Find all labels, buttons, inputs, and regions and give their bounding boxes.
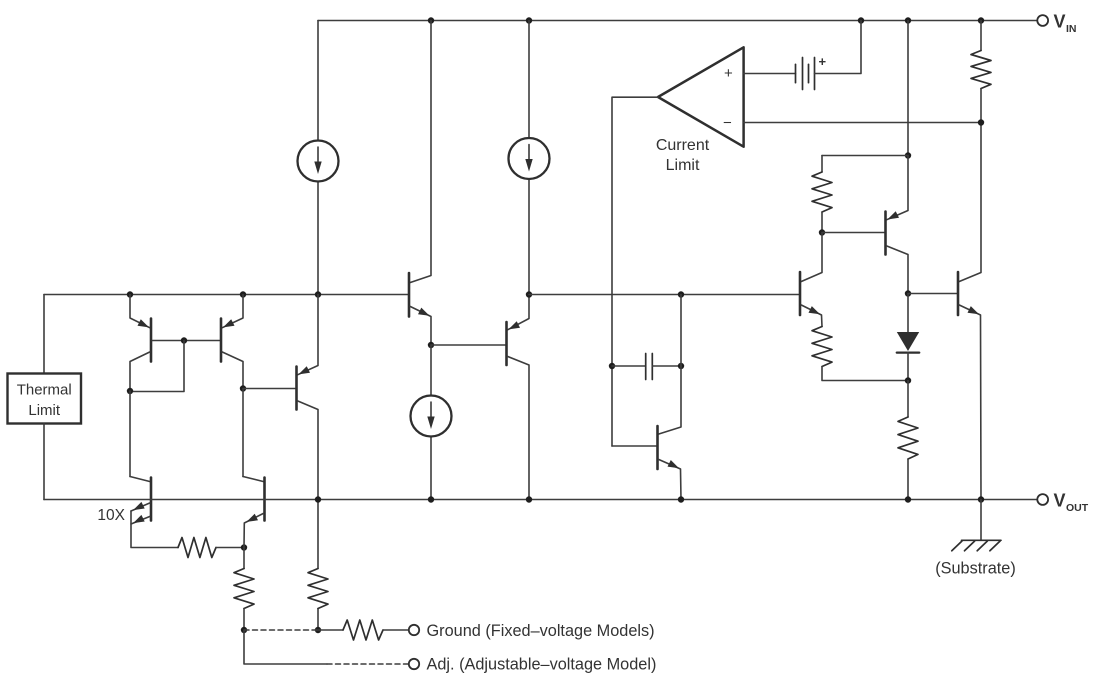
node x908 junction	[905, 152, 911, 158]
wire dashed adj	[327, 663, 409, 665]
transistor Q8	[801, 233, 822, 282]
wire dashed A-B	[244, 629, 318, 631]
transistor Q11	[243, 477, 263, 482]
transistor Q10 10X	[130, 477, 150, 482]
wire left rail	[44, 294, 408, 296]
svg-text:Adj. (Adjustable–voltage Model: Adj. (Adjustable–voltage Model)	[427, 655, 657, 673]
wire Q6 base link	[612, 445, 656, 447]
wire Q10 collector column	[129, 391, 131, 477]
capacitor C1	[612, 365, 646, 367]
current source I2	[509, 138, 550, 179]
current source I1	[298, 141, 339, 182]
svg-text:V: V	[1054, 491, 1066, 511]
transistor Q3	[410, 21, 431, 283]
resistor R3	[898, 417, 918, 459]
thermal limit box	[8, 374, 82, 424]
node Q7 collector junction	[905, 290, 911, 296]
node top rail junction dots	[428, 17, 434, 23]
wire B to R8	[318, 629, 343, 631]
node Q7 base node	[819, 229, 825, 235]
wire R2 to Q7 base node	[821, 212, 823, 233]
wire thermal limit link bottom	[43, 424, 45, 500]
wire thermal limit link top	[43, 295, 45, 374]
wire current-source I1 column	[317, 21, 319, 141]
wire mid rail to cap column	[680, 295, 682, 367]
resistor R6	[234, 569, 254, 609]
svg-text:−: −	[723, 115, 732, 132]
wire VIN column x981 top	[980, 21, 982, 51]
node diode cathode junction	[905, 377, 911, 383]
resistor R5	[812, 327, 832, 367]
battery B1	[795, 64, 797, 82]
wire Q3 emitter to Q4 base	[431, 344, 505, 346]
node left rail dots	[127, 291, 133, 297]
wire battery to top rail	[815, 21, 862, 74]
svg-text:Current: Current	[656, 137, 710, 154]
svg-text:Thermal: Thermal	[17, 382, 72, 399]
svg-text:Limit: Limit	[666, 157, 700, 174]
svg-text:+: +	[724, 65, 733, 82]
terminal Adj	[409, 659, 419, 669]
wire Q1 collector to base	[130, 341, 184, 392]
current source I3	[411, 396, 452, 437]
resistor R1	[971, 51, 991, 89]
svg-text:Ground (Fixed–voltage Models): Ground (Fixed–voltage Models)	[427, 622, 655, 640]
resistor R2	[812, 172, 832, 212]
wire op-amp + input to battery	[744, 73, 796, 75]
node Q1-Q2 base junction	[181, 337, 187, 343]
wire R7 link	[317, 609, 319, 631]
wire Q2 collector to Q5 base	[243, 388, 295, 390]
wire R6 link	[243, 548, 245, 569]
node Q2 collector junction	[240, 385, 246, 391]
wire Q1 base link	[152, 340, 219, 342]
node minus input junction	[978, 119, 984, 125]
node ground node B	[315, 627, 321, 633]
node R4 junction	[241, 544, 247, 550]
wire R4 to node	[216, 547, 244, 549]
svg-text:+: +	[819, 54, 827, 69]
svg-text:10X: 10X	[97, 507, 125, 524]
wire op-amp - input	[744, 122, 981, 124]
svg-text:(Substrate): (Substrate)	[935, 560, 1016, 578]
terminal Ground	[409, 625, 419, 635]
transistor Q1	[130, 295, 150, 328]
resistor R7	[308, 569, 328, 609]
transistor Q7	[887, 156, 908, 220]
wire R8 to ground terminal	[383, 629, 409, 631]
terminal VOUT	[1037, 494, 1048, 505]
wire Q2 collector down to Q11	[242, 389, 244, 477]
transistor Q6	[659, 366, 681, 434]
op-amp U1 Current Limit	[658, 47, 744, 146]
wire VOUT rail	[44, 499, 1037, 501]
svg-text:OUT: OUT	[1066, 502, 1089, 514]
terminal VIN	[1037, 15, 1048, 26]
wire op-amp output	[612, 97, 658, 446]
transistor Q4	[508, 295, 529, 330]
node mid rail dot at I2 column	[526, 291, 532, 297]
wire diode node to R3	[907, 381, 909, 418]
transistor Q2	[222, 295, 243, 328]
node Q1 collector junction	[127, 388, 133, 394]
node cap right junction	[678, 363, 684, 369]
diode D1	[907, 294, 909, 333]
node VOUT rail dots	[315, 496, 321, 502]
wire Q7 base link	[822, 232, 884, 234]
wire substrate link	[980, 500, 982, 541]
wire top V_IN rail	[318, 20, 1037, 22]
transistor Q9	[959, 123, 981, 282]
wire adj link	[244, 630, 327, 664]
ground substrate	[962, 539, 1002, 541]
svg-text:IN: IN	[1066, 23, 1077, 35]
wire R3 to VOUT rail	[907, 459, 909, 500]
wire current-source I2 column	[528, 21, 530, 139]
resistor R8	[343, 620, 383, 640]
transistor Q5	[298, 295, 318, 375]
node ground node A	[241, 627, 247, 633]
wire R6 to ground node	[243, 609, 245, 631]
node mid rail dot	[678, 291, 684, 297]
wire R5 to diode node	[822, 367, 908, 381]
svg-text:Limit: Limit	[28, 402, 61, 419]
wire R1 to minus node	[980, 89, 982, 123]
wire VIN column x908	[907, 21, 909, 156]
wire Q9 base link	[908, 293, 957, 295]
node cap left junction	[609, 363, 615, 369]
wire mid rail	[529, 294, 799, 296]
node Q3 emitter junction	[428, 342, 434, 348]
svg-text:V: V	[1054, 12, 1066, 32]
wire x908 to R2	[822, 155, 908, 157]
wire I3 column	[430, 345, 432, 396]
resistor R4	[178, 538, 216, 558]
